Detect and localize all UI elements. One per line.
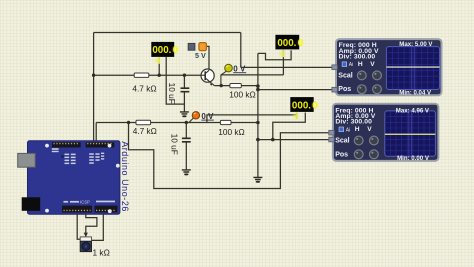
svg-text:Div: 300.00: Div: 300.00	[335, 119, 372, 126]
node emitter rail at trunk	[256, 84, 260, 88]
svg-text:0: 0	[173, 45, 179, 56]
wire voltmeter VM2 right terminal staircase to trunk	[258, 50, 291, 60]
svg-text:1 kΩ: 1 kΩ	[93, 247, 110, 257]
node VM3 wire at ground rail	[271, 138, 275, 142]
svg-text:V: V	[370, 61, 375, 68]
svg-text:0: 0	[312, 100, 318, 111]
svg-text:Pos: Pos	[335, 151, 348, 158]
node base rail / left vertical	[92, 74, 95, 77]
wire voltmeter VM3 right terminal to ground rail	[273, 113, 306, 140]
wire row2 left vertical to Arduino pin	[95, 123, 97, 143]
ground G2	[182, 170, 191, 176]
probe P1 yellow 0V	[221, 64, 246, 85]
wire capacitor C2 leads	[185, 123, 187, 170]
svg-text:4.7 kΩ: 4.7 kΩ	[133, 126, 157, 136]
wire capacitor C1 leads	[183, 75, 185, 111]
resistor R2 100k row1	[229, 84, 256, 100]
mounting holes	[45, 144, 120, 213]
svg-text:Min: 0.04 V: Min: 0.04 V	[399, 89, 432, 96]
voltmeter VM2	[275, 35, 303, 57]
svg-text:H: H	[355, 126, 360, 133]
wire scope1 channel A rail	[241, 66, 337, 68]
wire loop Arduino to scope2 channel A	[129, 123, 334, 189]
probe P2 orange 0V	[189, 112, 214, 123]
ground G3	[253, 177, 262, 182]
svg-text:5 V: 5 V	[195, 51, 206, 60]
power jack	[22, 197, 41, 211]
header bottom left	[62, 206, 92, 213]
oscilloscope U3 (bottom)	[329, 104, 439, 162]
wire emitter rail	[214, 85, 258, 87]
usb connector	[18, 153, 36, 167]
wire scope1 channel B ground line	[258, 89, 337, 91]
svg-text:000.: 000.	[292, 100, 311, 111]
resistor R4 100k row2	[218, 120, 245, 136]
wire pot right pin	[91, 213, 103, 241]
silkscreen tiny labels	[52, 148, 115, 204]
wire 5V terminal to collector	[206, 46, 209, 69]
wire voltmeter VM1 left terminal	[158, 57, 160, 75]
node capacitor C2 on row2 rail	[185, 121, 188, 124]
header bottom right	[95, 206, 118, 213]
svg-text:Scal: Scal	[338, 72, 352, 79]
node probe pin on emitter rail	[220, 84, 223, 87]
wire ground rail to scope2 channel B	[258, 139, 333, 141]
svg-text:Aі: Aі	[349, 62, 353, 68]
node row2 rail at trunk	[256, 121, 260, 125]
svg-text:Pos: Pos	[338, 86, 351, 93]
svg-text:Max: 4.96 V: Max: 4.96 V	[396, 108, 430, 115]
svg-text:ICSP: ICSP	[80, 199, 90, 204]
svg-text:Min: 0.00 V: Min: 0.00 V	[397, 155, 430, 162]
resistor R3 4.7k row2	[133, 120, 157, 136]
svg-text:Aі: Aі	[346, 127, 350, 133]
node trunk at ground rail	[256, 138, 260, 142]
svg-text:Max: 5.00 V: Max: 5.00 V	[399, 41, 433, 48]
wire left vertical to Arduino pin	[93, 33, 95, 143]
wire voltmeter VM3 left terminal to probe node	[207, 113, 297, 123]
svg-text:100 kΩ: 100 kΩ	[218, 127, 245, 137]
ground G1	[180, 112, 189, 117]
svg-text:Div: 300.00: Div: 300.00	[339, 53, 376, 60]
svg-text:000.: 000.	[152, 45, 171, 56]
svg-text:V: V	[367, 126, 372, 133]
oscilloscope U2 (top)	[332, 39, 442, 96]
wire voltmeter VM1 right terminal to ground node	[166, 57, 184, 104]
wire probe node rail row1	[221, 74, 284, 76]
wire base rail row1	[94, 74, 202, 76]
node loop wire on row2 rail	[127, 121, 130, 124]
voltmeter VM1	[151, 42, 178, 64]
svg-text:10 uF: 10 uF	[170, 134, 180, 155]
wire row2 rail	[96, 122, 258, 124]
transistor Q1	[201, 69, 214, 86]
wire ground trunk	[257, 53, 259, 177]
wire voltmeter VM2 left terminal	[282, 50, 284, 75]
header top left	[52, 142, 81, 147]
wire drop from top rail to scope rail	[240, 33, 242, 68]
node VM1 left on base rail	[158, 74, 161, 77]
wire pot wiper loop	[86, 213, 97, 233]
svg-text:Scal: Scal	[335, 138, 349, 145]
wire pot left pin	[77, 213, 80, 240]
junction dots	[92, 74, 275, 142]
svg-text:0 V: 0 V	[201, 112, 214, 121]
svg-text:H: H	[358, 61, 363, 68]
svg-text:000.: 000.	[277, 38, 296, 49]
node ground line B at trunk	[256, 88, 260, 92]
resistor R1 4.7k row1	[132, 73, 156, 93]
svg-text:0: 0	[298, 38, 304, 49]
svg-text:10 uF: 10 uF	[167, 83, 177, 104]
capacitor C1 10uF	[167, 83, 189, 104]
svg-text:100 kΩ: 100 kΩ	[229, 90, 256, 100]
Arduino Uno board U1	[18, 141, 130, 214]
voltmeter VM3	[290, 97, 318, 119]
potentiometer RV1 1k	[80, 233, 110, 258]
node capacitor C1 on base rail	[183, 74, 186, 77]
header top right	[86, 142, 115, 147]
power terminal 5V	[188, 43, 206, 61]
svg-text:4.7 kΩ: 4.7 kΩ	[132, 83, 156, 93]
wire top rail	[94, 32, 241, 34]
capacitor C2 10uF	[170, 134, 191, 155]
svg-text:Arduino Uno-26: Arduino Uno-26	[120, 141, 130, 212]
